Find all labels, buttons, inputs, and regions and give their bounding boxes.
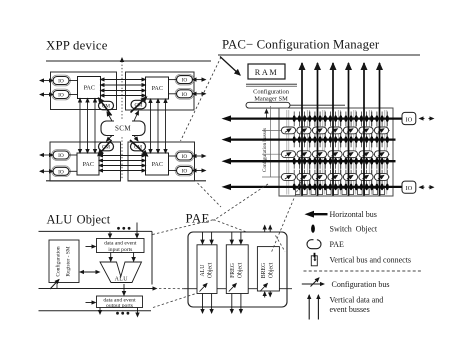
svg-text:IO: IO <box>58 93 64 99</box>
IO port Q3a <box>53 151 69 159</box>
wire register box to mid rail <box>56 283 58 289</box>
switch objects row 1 <box>293 115 389 122</box>
legend: switch object symbol <box>311 225 315 233</box>
vertical data/event bus x=333 <box>332 63 334 196</box>
switch objects row 4 <box>293 184 389 191</box>
svg-text:Object: Object <box>237 262 243 278</box>
wire: title underline <box>218 54 420 56</box>
wires into FREG object top <box>231 232 233 244</box>
arrow into input ports <box>86 246 96 248</box>
svg-text:Horizontal bus: Horizontal bus <box>330 210 377 219</box>
arrow to RAM <box>220 57 240 76</box>
wire SCM to CM2 <box>134 111 139 121</box>
horizontal bus PAC3-PAC4 <box>99 155 146 157</box>
wire: XPP bottom rail <box>46 180 121 182</box>
block: FREG Object <box>226 245 248 294</box>
PAC U1 (top-left) <box>78 77 101 99</box>
svg-text:CM: CM <box>102 104 110 110</box>
zoom connector ALU view bottom to PAE ALU object corner <box>153 294 196 308</box>
svg-text:event busses: event busses <box>330 305 370 314</box>
bidirectional wire register-ALU <box>80 271 100 273</box>
IO right-bottom arrows <box>420 186 434 188</box>
svg-text:Register - SM: Register - SM <box>66 246 72 276</box>
svg-text:ALU: ALU <box>115 276 129 282</box>
wire: ALU view top rail <box>39 230 153 232</box>
horizontal bus PAC1-PAC2 <box>101 79 146 81</box>
wire IO-PAC Q4 <box>169 155 177 157</box>
svg-text:data and event: data and event <box>104 241 137 247</box>
config slash arrow ALU obj <box>200 284 208 292</box>
wire: input drop lines <box>110 223 137 238</box>
IO right-top arrows <box>420 118 434 120</box>
vertical data/event bus x=348.5 <box>348 63 350 196</box>
horizontal bus 2 <box>229 138 396 140</box>
svg-text:ALU: ALU <box>200 264 206 277</box>
wires out of ALU object bottom <box>202 294 204 314</box>
config slash arrow FREG obj <box>229 284 237 292</box>
wires into ALU object top <box>202 232 204 244</box>
svg-text:PAC: PAC <box>84 85 95 92</box>
wire ALU to output ports <box>123 284 125 295</box>
svg-text:IO: IO <box>182 169 188 175</box>
svg-text:BREG: BREG <box>261 263 267 278</box>
svg-text:Object: Object <box>207 262 213 278</box>
vertical data/event bus x=364 <box>363 63 365 196</box>
config arrow CM4 to PAC4 <box>130 140 148 156</box>
zoom connector ALU view to PAE label <box>153 220 214 235</box>
quadrant box Q2 <box>126 72 195 110</box>
svg-text:SCM: SCM <box>115 125 131 133</box>
IO port Q1a <box>53 77 69 85</box>
IO block right top <box>402 112 416 124</box>
svg-text:RAM: RAM <box>255 68 278 77</box>
IO port Q4a <box>177 152 193 160</box>
horizontal bus 3 <box>229 160 396 162</box>
svg-text:FREG: FREG <box>230 263 236 278</box>
block: ALU Object (in PAE) <box>197 245 217 294</box>
zoom connector to PAE container top <box>214 220 247 232</box>
PAE row 3 <box>281 174 388 181</box>
svg-text:IO: IO <box>406 116 413 123</box>
vertical data/event bus x=317.5 <box>317 63 319 196</box>
SCM supervising CM <box>101 121 145 136</box>
svg-text:Switch Object: Switch Object <box>330 225 378 234</box>
vertical data/event bus x=302 <box>301 63 303 196</box>
svg-text:PAC: PAC <box>152 161 163 168</box>
svg-text:IO: IO <box>182 154 188 160</box>
wire: ALU view middle rail <box>39 288 157 290</box>
horizontal bus 4 <box>229 186 402 188</box>
configuration bus drop <box>270 106 272 177</box>
connector stub rows <box>294 112 387 117</box>
IO port Q2b <box>177 90 193 98</box>
legend: separator dashed line <box>304 270 422 272</box>
svg-text:IO: IO <box>58 169 64 175</box>
node: XPP centre dotted line <box>121 58 123 180</box>
svg-text:XPP device: XPP device <box>46 39 108 53</box>
svg-text:PAC: PAC <box>83 161 94 168</box>
IO oval halos <box>52 74 194 177</box>
configuration bus row 3 <box>262 176 390 178</box>
PAC U4 (bottom-right) <box>146 153 169 175</box>
wire SCM to CM1 <box>107 112 112 121</box>
IO port Q1b <box>53 91 69 99</box>
config arrow CM3 to PAC3 <box>98 140 112 156</box>
vertical channel lines <box>306 110 308 195</box>
wires input ports to ALU <box>111 253 134 262</box>
RAM block <box>248 64 285 79</box>
CM oval Q4 <box>131 142 146 151</box>
ellipsis dots top <box>117 227 130 230</box>
wires above BREG object <box>264 226 266 233</box>
external IO arrows left top <box>40 80 53 82</box>
PAE array outer box <box>279 108 393 196</box>
wire: ALU view right edge <box>151 231 153 284</box>
wire SCM to CM3 <box>107 136 113 142</box>
svg-text:PAE: PAE <box>330 240 344 249</box>
CM oval Q3 <box>99 142 114 151</box>
config arrow CM1 to PAC1 <box>99 98 112 116</box>
svg-text:Vertical bus and connects: Vertical bus and connects <box>330 256 412 265</box>
switch objects row 3 <box>293 158 389 165</box>
config arrow CM2 to PAC2 <box>131 97 147 113</box>
wires below BREG object <box>264 292 266 298</box>
svg-text:input ports: input ports <box>108 247 132 253</box>
svg-text:PAC: PAC <box>152 85 163 92</box>
PAE container <box>188 232 287 307</box>
wire SCM to CM4 <box>134 136 138 142</box>
block: BREG Object <box>257 247 279 291</box>
svg-text:IO: IO <box>58 153 64 159</box>
zoom connector grid to PAE right <box>272 182 302 253</box>
switch objects row 2 <box>293 136 389 143</box>
horizontal bus 1 <box>229 117 402 119</box>
svg-text:CM: CM <box>134 103 142 109</box>
quadrant box Q4 <box>128 142 195 181</box>
svg-text:CM: CM <box>102 145 110 151</box>
legend: configuration bus symbol <box>302 278 324 287</box>
svg-text:output ports: output ports <box>106 303 133 309</box>
external IO arrows right bottom <box>193 155 206 157</box>
block: data and event output ports <box>97 296 143 308</box>
zoom connector into PAE corner <box>276 236 286 252</box>
zoom connector XPP corner to PAE label <box>198 183 222 207</box>
Configuration Manager SM block <box>246 84 345 119</box>
vertical data/event bus x=379.5 <box>379 63 381 196</box>
config slash arrow BREG obj <box>260 284 268 292</box>
external IO arrows left bottom <box>40 154 53 156</box>
ALU U5 <box>100 262 142 283</box>
svg-text:IO: IO <box>182 78 188 84</box>
quadrant box Q3 <box>50 142 121 181</box>
legend: horizontal bus symbol <box>305 211 328 218</box>
config slash arrow into register box <box>50 280 59 290</box>
svg-text:Vertical data and: Vertical data and <box>330 295 384 304</box>
vertical bus PAC2-PAC4 <box>150 99 152 153</box>
svg-text:Configuration: Configuration <box>253 89 290 96</box>
zoom connector ALU mid rail to PAE bus <box>159 288 184 290</box>
external IO arrows right top <box>193 79 206 81</box>
configuration bus (dash-dot) from PAC quadrant to CM view <box>181 57 222 141</box>
wire IO-PAC Q1 <box>69 80 78 82</box>
block: Configuration Register - SM <box>49 240 79 283</box>
IO port Q3b <box>53 167 69 175</box>
vertical bus PAC1-PAC3 <box>79 99 81 154</box>
CM oval Q2 <box>131 100 146 109</box>
quadrant box Q1 <box>51 72 117 110</box>
wire output below rail <box>99 308 101 315</box>
wires out of FREG object bottom <box>231 294 233 314</box>
wire: ALU view bottom rail <box>39 310 152 312</box>
svg-text:Configuration: Configuration <box>55 246 62 277</box>
zoom connector grid to PAE label <box>214 184 269 221</box>
PAC U2 (top-right) <box>146 77 169 99</box>
svg-text:Object: Object <box>268 262 274 278</box>
PAE row 1 <box>281 127 388 134</box>
IO block right bottom <box>402 181 416 193</box>
wire: XPP bottom rail right <box>128 180 206 182</box>
legend: vertical data and event busses symbol <box>309 295 318 320</box>
PAE row 2 <box>281 151 388 158</box>
wire: PAE internal horizontal bus <box>184 288 292 290</box>
wire IO-PAC Q3 <box>69 154 77 156</box>
svg-text:IO: IO <box>182 92 188 98</box>
svg-text:CM: CM <box>134 145 142 151</box>
svg-text:PAC− Configuration Manager: PAC− Configuration Manager <box>222 38 380 52</box>
ellipsis dots bottom <box>116 312 129 315</box>
CM oval Q1 <box>99 101 114 110</box>
legend: PAE symbol <box>307 240 321 249</box>
svg-text:Configuration bus: Configuration bus <box>332 280 390 289</box>
svg-text:IO: IO <box>58 79 64 85</box>
svg-text:ALU Object: ALU Object <box>47 213 111 227</box>
IO port Q4b <box>177 167 193 175</box>
svg-text:IO: IO <box>406 185 413 192</box>
arrow into output ports <box>86 302 96 304</box>
wire IO-PAC Q2 <box>169 79 177 81</box>
IO port Q2a <box>177 76 193 84</box>
PAC U3 (bottom-left) <box>77 153 99 175</box>
configuration bus row 1 <box>262 129 390 131</box>
configuration bus row 2 <box>262 153 390 155</box>
block: data and event input ports <box>97 239 145 253</box>
legend: vertical bus and connects symbol <box>311 253 317 266</box>
svg-text:Manager SM: Manager SM <box>254 96 288 103</box>
svg-text:Configuration busses: Configuration busses <box>261 128 268 172</box>
bottom connector boxes <box>296 189 385 195</box>
wire: XPP top rail <box>46 60 211 62</box>
